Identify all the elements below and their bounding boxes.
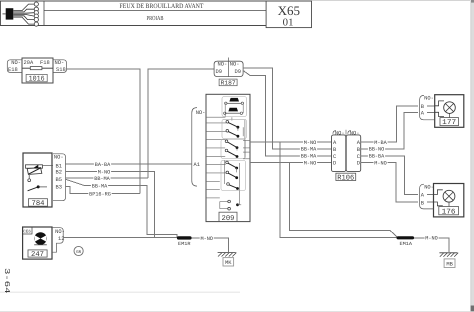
svg-text:B3: B3	[56, 185, 62, 191]
relay 784 box	[23, 153, 52, 207]
svg-text:247: 247	[31, 251, 44, 259]
176 label	[439, 207, 459, 217]
svg-text:FEUX DE BROUILLARD AVANT: FEUX DE BROUILLARD AVANT	[120, 3, 204, 10]
wire EM1R to MK	[192, 235, 229, 252]
wire fuse feed down to B3 net	[113, 193, 140, 195]
wire R106 A right M-BA to lamp177 B	[361, 106, 435, 146]
svg-text:3-64: 3-64	[2, 268, 10, 294]
209 interior verticals	[221, 97, 247, 205]
svg-text:M-NO: M-NO	[304, 161, 316, 167]
svg-text:C: C	[357, 154, 360, 160]
pin S18	[53, 60, 67, 73]
wire 247 pin12 to EM1R	[63, 236, 177, 238]
svg-text:NO-: NO-	[55, 229, 65, 235]
option circle GR	[74, 246, 83, 255]
wire R106 D right M-NO to lamp176 B	[361, 160, 434, 202]
svg-text:R187: R187	[221, 79, 236, 86]
svg-text:784: 784	[32, 200, 45, 208]
connector R106	[332, 130, 361, 172]
svg-text:MK: MK	[225, 260, 232, 266]
header harness icon	[3, 2, 39, 26]
svg-text:NO-: NO-	[424, 184, 434, 190]
svg-text:GR: GR	[76, 250, 82, 255]
209 right edge stubs	[243, 140, 250, 159]
svg-text:D: D	[333, 161, 336, 167]
svg-text:PROIAB: PROIAB	[147, 15, 164, 22]
176 bulb	[434, 190, 455, 207]
lamp 177 box	[435, 95, 464, 128]
784 coil	[26, 165, 54, 175]
R106 label	[336, 173, 356, 182]
page number 3-64	[2, 268, 10, 294]
ground MK	[218, 253, 237, 266]
svg-text:NO-: NO-	[54, 155, 64, 161]
svg-text:BB-MA: BB-MA	[94, 176, 110, 182]
svg-text:176: 176	[442, 208, 456, 216]
wire 784 B2 M-NO to EM1R	[66, 169, 155, 238]
svg-text:B2: B2	[56, 170, 62, 176]
784 label	[29, 199, 48, 208]
svg-text:MB: MB	[446, 261, 453, 267]
svg-text:NO-: NO-	[55, 60, 65, 66]
connector R187	[214, 58, 243, 77]
svg-text:209: 209	[222, 215, 235, 223]
209 label	[219, 212, 237, 223]
svg-text:NO-: NO-	[196, 110, 206, 116]
svg-text:BB-MA: BB-MA	[301, 154, 317, 160]
784 contact	[28, 175, 47, 191]
209 interior switch contacts	[225, 121, 239, 190]
svg-text:NO-: NO-	[230, 62, 240, 68]
svg-text:NO-: NO-	[350, 130, 360, 136]
svg-text:EM1A: EM1A	[400, 241, 413, 247]
247 lamp symbol	[34, 232, 47, 245]
svg-text:NO-: NO-	[424, 96, 434, 102]
splice EM1A	[397, 236, 415, 247]
wire R187 feed: from BB-MA (B5) up to R187 left pin	[148, 69, 214, 178]
svg-text:NO-: NO-	[218, 62, 228, 68]
label R187	[219, 79, 237, 86]
svg-text:EM1R: EM1R	[178, 241, 191, 247]
209 interior ladder stubs	[206, 123, 226, 198]
header title	[120, 3, 204, 22]
svg-text:BB-MA: BB-MA	[301, 147, 317, 153]
177 bulb	[435, 101, 456, 118]
svg-text:NO-: NO-	[11, 60, 21, 66]
svg-text:BB-BA: BB-BA	[369, 154, 385, 160]
svg-text:F18: F18	[40, 60, 50, 66]
209 interior bottom terminals	[220, 200, 241, 210]
svg-text:BB-NO: BB-NO	[369, 147, 385, 153]
wire R106 C right BB-BA to lamp176 A	[361, 153, 434, 195]
wire R187 out upper to R106 B	[243, 68, 331, 149]
pin E18	[7, 60, 22, 73]
wire 784 B3 BP16-RG from fuse	[66, 187, 140, 198]
svg-text:20A: 20A	[24, 60, 34, 66]
wire R187 out lower to R106 C	[243, 71, 331, 156]
svg-text:E18: E18	[8, 67, 18, 73]
switch unit 209 box	[206, 94, 250, 221]
176 pin bracket	[420, 184, 434, 209]
fuse F18 box	[22, 58, 53, 83]
784 pin bracket	[53, 154, 66, 201]
svg-text:C: C	[333, 154, 336, 160]
fuse symbol	[22, 67, 53, 70]
svg-text:M-NO: M-NO	[425, 236, 437, 242]
svg-text:NO-: NO-	[335, 130, 345, 136]
svg-text:A1: A1	[194, 162, 200, 168]
svg-text:BA-BA: BA-BA	[95, 162, 111, 168]
wire EM1A to MB	[414, 235, 449, 252]
svg-text:M-NO: M-NO	[374, 161, 386, 167]
svg-text:X65: X65	[278, 3, 300, 18]
209 pin bracket NO- / A1	[192, 108, 206, 187]
wire 784 B5 BB-MA to R187	[66, 175, 148, 182]
fuse label 1016	[26, 74, 47, 83]
svg-text:D9: D9	[235, 69, 241, 75]
177 label	[440, 118, 459, 128]
lamp 176 box	[434, 184, 464, 217]
177 pin bracket	[420, 95, 435, 119]
svg-text:B5: B5	[56, 177, 62, 183]
svg-text:D9: D9	[216, 69, 222, 75]
indicator 247 box	[23, 227, 52, 259]
wire S18 to BP16-RG vertical	[67, 69, 140, 194]
svg-text:BB-MA: BB-MA	[92, 184, 108, 190]
svg-text:177: 177	[442, 119, 456, 127]
header page box X65	[266, 1, 311, 29]
ground MB	[439, 253, 458, 268]
wire 209 right to R106 D and down to EM1A	[250, 160, 398, 238]
svg-text:D: D	[357, 161, 360, 167]
svg-text:01: 01	[283, 18, 294, 29]
wire R106 B right BB-NO to lamp177 A	[361, 112, 435, 152]
wire BA-BA from 784 B1 to 209 A1	[66, 161, 192, 168]
R106 left wire labels	[300, 146, 317, 160]
svg-text:S18: S18	[56, 67, 66, 73]
header frame	[0, 1, 470, 26]
svg-text:BP16-RG: BP16-RG	[89, 191, 111, 197]
209 interior contacts	[206, 98, 244, 117]
svg-text:CE6: CE6	[23, 230, 31, 235]
svg-text:M-BA: M-BA	[374, 140, 387, 146]
svg-text:M-NO: M-NO	[200, 236, 212, 242]
247 label	[28, 250, 47, 259]
svg-text:R106: R106	[337, 174, 354, 182]
splice EM1R	[177, 236, 192, 247]
svg-text:B1: B1	[56, 163, 62, 169]
svg-text:M-NO: M-NO	[304, 140, 316, 146]
wire 784 B5 diag BB-MA to EM1R	[66, 179, 177, 237]
wire 209 right to R106 A and down to EM1A	[250, 139, 397, 237]
247 pin bracket	[52, 228, 65, 253]
svg-text:M-NO: M-NO	[98, 169, 110, 175]
svg-text:1016: 1016	[29, 76, 45, 84]
